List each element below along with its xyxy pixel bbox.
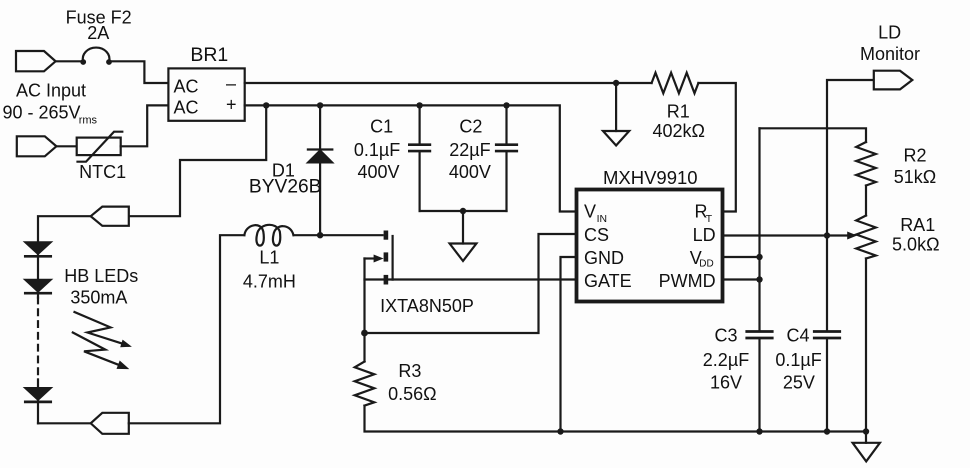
- wire C1 C2 common: [420, 210, 507, 212]
- wire gate Q1 to GATE pin: [393, 278, 577, 280]
- svg-text:402kΩ: 402kΩ: [652, 121, 705, 141]
- svg-text:MXHV9910: MXHV9910: [603, 167, 698, 188]
- wire J4 to L1: [129, 235, 245, 423]
- wire fuse to BR1 AC top: [109, 61, 168, 83]
- svg-text:T: T: [706, 214, 713, 225]
- RA1 wiper arrowhead: [847, 232, 857, 240]
- wire R2 to RA1: [865, 186, 867, 216]
- svg-text:GATE: GATE: [584, 271, 632, 291]
- node plus rail junction to LED string: [263, 102, 269, 108]
- svg-text:AC Input: AC Input: [16, 81, 86, 101]
- wire minus rail BR1 to R1: [245, 82, 652, 84]
- svg-text:DD: DD: [699, 259, 713, 270]
- wire J2 to NTC1: [56, 145, 76, 147]
- node plus rail at C2: [503, 102, 509, 108]
- svg-text:C3: C3: [714, 325, 737, 345]
- svg-text:4.7mH: 4.7mH: [243, 272, 296, 292]
- connector J5 LD monitor: [874, 71, 913, 90]
- svg-text:R2: R2: [903, 146, 926, 166]
- connector J4 LED string bottom: [91, 413, 129, 434]
- wire J3 tip to LED chain: [38, 216, 91, 297]
- node C1 C2 ground: [460, 208, 466, 214]
- svg-text:BYV26B: BYV26B: [249, 176, 322, 197]
- svg-text:NTC1: NTC1: [79, 162, 126, 182]
- LED D-string diode 1: [26, 242, 51, 254]
- svg-text:2A: 2A: [87, 23, 109, 43]
- node minus rail ground tap: [613, 80, 619, 86]
- wire dashed LED continuation: [37, 298, 39, 376]
- wire L1 to drain node: [294, 234, 383, 236]
- wire RT riser handled above; wire LD pin to RA1 wiper: [723, 234, 850, 236]
- wire Q1 source/body to R3: [363, 259, 365, 334]
- svg-text:–: –: [226, 74, 236, 94]
- wire CS pin to sense node: [365, 234, 577, 333]
- wire VDD column to C3 and divider: [758, 128, 760, 330]
- inductor L1: [244, 225, 293, 246]
- wire RA1 bottom to ground rail: [865, 259, 867, 432]
- connector J2 AC input neutral: [17, 136, 57, 156]
- svg-text:V: V: [584, 201, 596, 221]
- wire LED3 to J4: [38, 422, 91, 424]
- wire R3 top lead: [363, 333, 365, 362]
- wire R3 bottom to ground rail: [365, 406, 867, 432]
- svg-text:0.1µF: 0.1µF: [775, 350, 821, 370]
- node plus rail at C1: [416, 102, 422, 108]
- connector J3 LED string top: [91, 207, 129, 226]
- svg-text:L1: L1: [259, 248, 279, 268]
- fuse F2: [83, 48, 110, 62]
- svg-text:AC: AC: [174, 76, 199, 96]
- svg-text:90 - 265V: 90 - 265V: [3, 102, 81, 122]
- diode D1: [319, 105, 321, 148]
- wire divider top: [760, 128, 867, 142]
- svg-text:LD: LD: [693, 225, 716, 245]
- node drain junction with D1: [317, 232, 323, 238]
- wire ground stub: [615, 83, 617, 131]
- potentiometer RA1: [856, 216, 876, 259]
- node ground rail at RA1: [863, 428, 869, 434]
- node fuse left: [80, 59, 86, 65]
- resistor R3: [355, 362, 375, 406]
- ground symbol input: [450, 244, 477, 262]
- svg-text:rms: rms: [79, 115, 98, 127]
- wire R1 to RT pin: [698, 83, 735, 212]
- transistor Q1 IXTA8N50P: [384, 231, 389, 240]
- svg-text:IXTA8N50P: IXTA8N50P: [380, 296, 474, 316]
- svg-text:PWMD: PWMD: [659, 271, 716, 291]
- ground symbol at R1: [603, 131, 629, 146]
- wire plus rail BR1 to VIN: [245, 105, 577, 211]
- svg-text:C1: C1: [370, 117, 393, 137]
- node PWMD: [756, 276, 762, 282]
- bridge rectifier BR1: [168, 68, 244, 120]
- svg-text:2.2µF: 2.2µF: [703, 350, 749, 370]
- resistor R2: [856, 142, 876, 186]
- svg-text:C4: C4: [786, 325, 809, 345]
- svg-text:R1: R1: [667, 102, 690, 122]
- node ground rail at GND: [557, 428, 563, 434]
- wire NTC1 to BR1 AC bottom: [121, 105, 169, 146]
- node LD / C4: [824, 232, 830, 238]
- HB LEDs emission arrow 2: [73, 333, 119, 365]
- LED D-string diode 2: [26, 280, 51, 292]
- svg-text:Monitor: Monitor: [860, 44, 920, 64]
- svg-text:25V: 25V: [783, 373, 815, 393]
- svg-text:IN: IN: [597, 214, 607, 225]
- svg-text:AC: AC: [174, 97, 199, 117]
- wire LED feed down from plus rail: [129, 105, 266, 216]
- wire VDD pin stub: [723, 256, 760, 258]
- svg-text:0.1µF: 0.1µF: [354, 140, 400, 160]
- svg-text:5.0kΩ: 5.0kΩ: [892, 235, 939, 255]
- ground symbol main: [853, 443, 880, 462]
- wire ground stub right: [865, 432, 867, 443]
- svg-text:+: +: [226, 95, 237, 115]
- svg-text:LD: LD: [878, 23, 901, 43]
- svg-text:CS: CS: [584, 225, 609, 245]
- svg-text:BR1: BR1: [190, 44, 228, 66]
- node C4 ground: [824, 428, 830, 434]
- wire J1 to fuse: [56, 60, 83, 62]
- svg-text:0.56Ω: 0.56Ω: [388, 384, 437, 404]
- svg-text:R3: R3: [398, 361, 421, 381]
- connector J1 AC input line: [16, 51, 56, 71]
- wire GND pin to ground rail: [561, 257, 577, 432]
- wire PWMD pin stub: [723, 278, 760, 280]
- thermistor NTC1: [77, 138, 121, 156]
- svg-text:C2: C2: [459, 117, 482, 137]
- svg-text:400V: 400V: [357, 162, 399, 182]
- wire to input ground: [462, 211, 464, 244]
- HB LEDs emission arrow 1: [75, 312, 122, 343]
- LED D-string diode 3: [37, 379, 39, 423]
- svg-text:GND: GND: [584, 248, 624, 268]
- node R3 top / CS sense: [361, 330, 368, 337]
- capacitor C1: [419, 105, 421, 143]
- wire LD monitor column: [827, 80, 874, 236]
- svg-text:350mA: 350mA: [70, 288, 127, 308]
- resistor R1: [652, 73, 699, 94]
- capacitor C3: [747, 330, 772, 333]
- svg-text:400V: 400V: [449, 162, 491, 182]
- capacitor C4: [826, 236, 828, 331]
- node fuse right: [106, 59, 112, 65]
- node C3 ground: [756, 428, 762, 434]
- svg-text:22µF: 22µF: [449, 140, 490, 160]
- op-amp U1 MXHV9910 body: [577, 190, 723, 302]
- svg-text:16V: 16V: [710, 373, 742, 393]
- svg-text:51kΩ: 51kΩ: [894, 167, 936, 187]
- svg-text:HB LEDs: HB LEDs: [64, 266, 138, 286]
- node VDD: [756, 254, 762, 260]
- svg-text:RA1: RA1: [900, 215, 935, 235]
- node plus rail at D1: [317, 102, 323, 108]
- capacitor C2: [505, 105, 507, 143]
